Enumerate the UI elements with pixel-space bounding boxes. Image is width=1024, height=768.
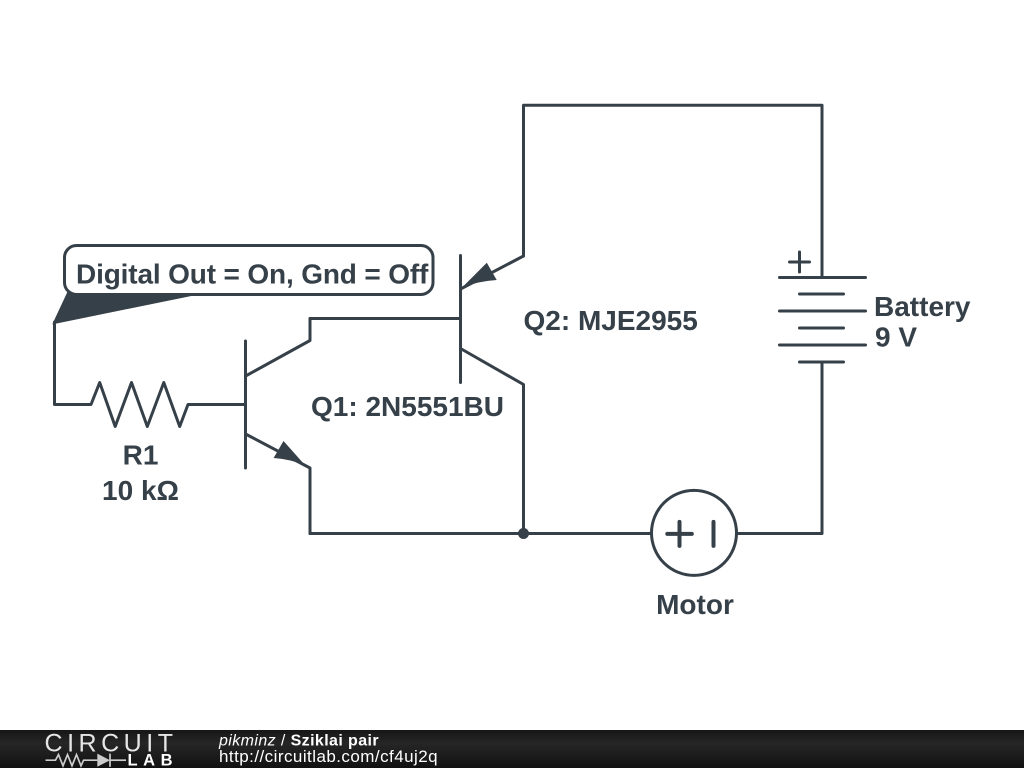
svg-text:Q2: MJE2955: Q2: MJE2955	[524, 305, 698, 336]
svg-text:Motor: Motor	[656, 589, 734, 620]
svg-text:Q1: 2N5551BU: Q1: 2N5551BU	[311, 391, 504, 422]
svg-text:Digital Out = On, Gnd = Off: Digital Out = On, Gnd = Off	[76, 259, 429, 290]
svg-text:10 kΩ: 10 kΩ	[102, 475, 179, 506]
svg-text:Battery: Battery	[874, 291, 971, 322]
svg-text:http://circuitlab.com/cf4uj2q: http://circuitlab.com/cf4uj2q	[219, 747, 438, 766]
svg-text:9 V: 9 V	[875, 322, 917, 353]
svg-text:R1: R1	[123, 440, 159, 471]
svg-text:LAB: LAB	[128, 751, 173, 768]
